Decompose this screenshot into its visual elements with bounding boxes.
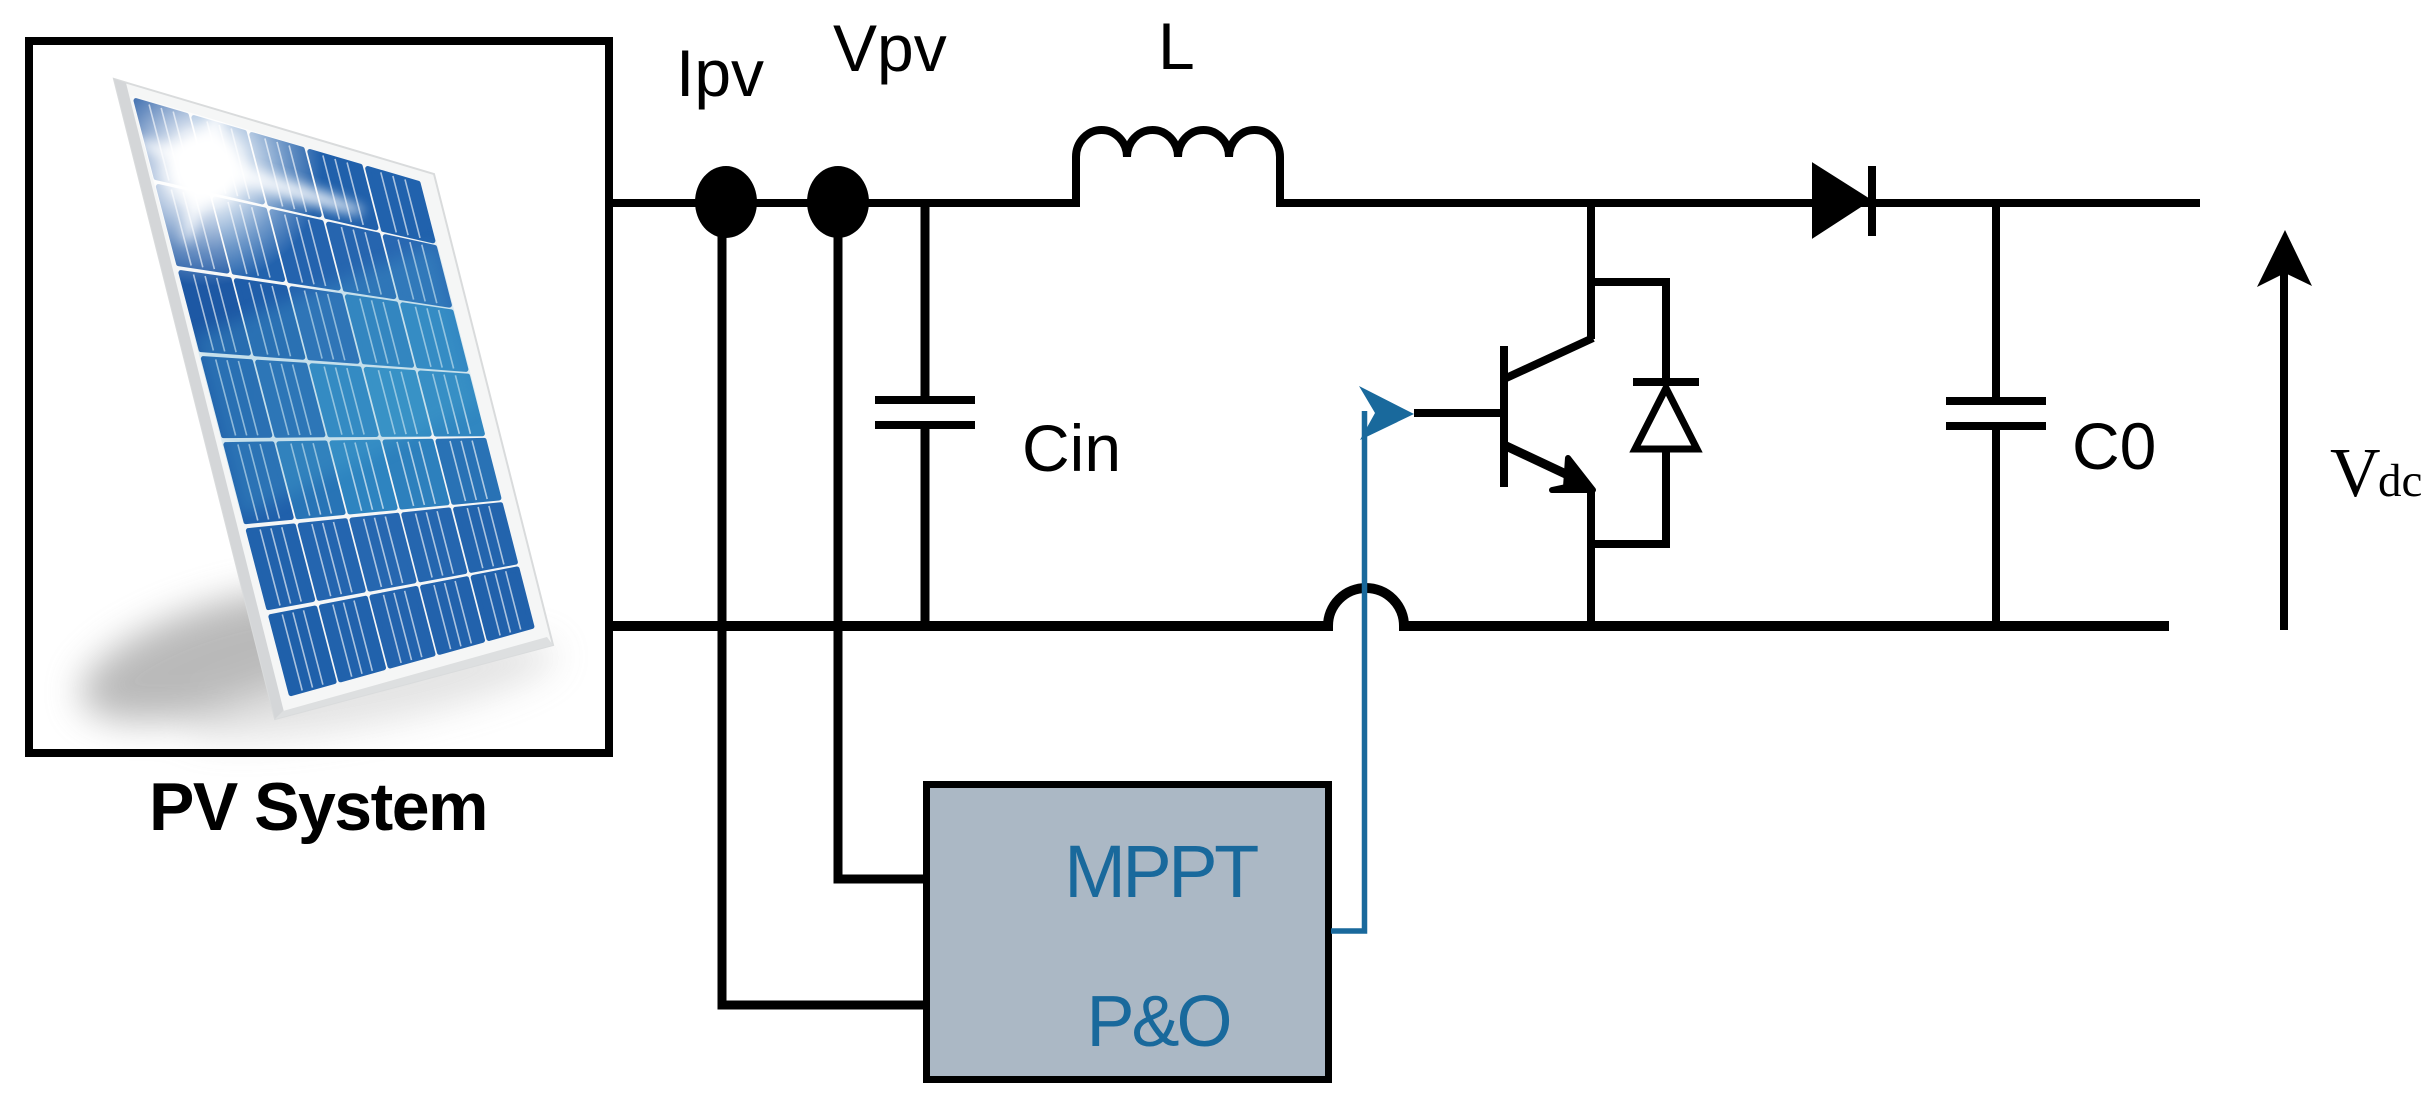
- svg-text:Ipv: Ipv: [676, 36, 764, 110]
- svg-text:Vpv: Vpv: [833, 11, 947, 85]
- svg-text:Cin: Cin: [1022, 411, 1121, 485]
- svg-text:dc: dc: [2378, 455, 2422, 507]
- svg-text:PV System: PV System: [149, 769, 487, 845]
- svg-text:V: V: [2330, 435, 2381, 512]
- svg-text:P&O: P&O: [1086, 982, 1229, 1062]
- svg-text:L: L: [1158, 9, 1195, 83]
- svg-text:MPPT: MPPT: [1064, 830, 1258, 913]
- svg-text:C0: C0: [2072, 409, 2156, 483]
